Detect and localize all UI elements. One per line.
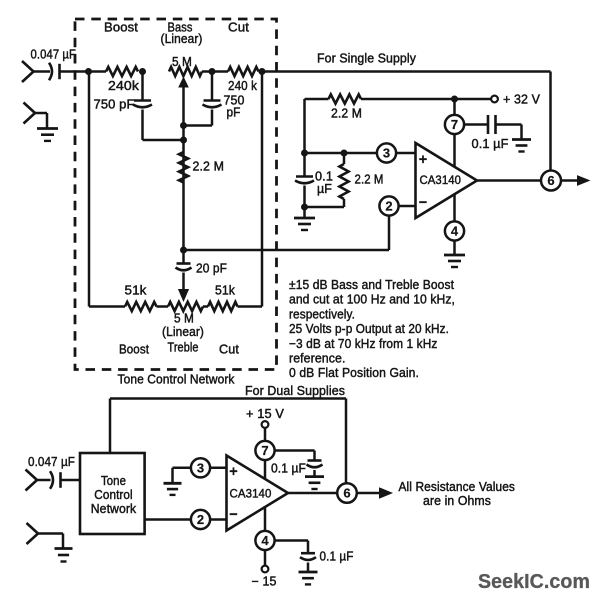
svg-text:−: − bbox=[229, 507, 238, 523]
svg-text:0.1 µF: 0.1 µF bbox=[472, 137, 509, 151]
svg-text:3: 3 bbox=[383, 146, 390, 161]
svg-text:CA3140: CA3140 bbox=[230, 487, 272, 501]
svg-text:CA3140: CA3140 bbox=[420, 173, 462, 187]
svg-text:4: 4 bbox=[451, 224, 459, 239]
svg-text:SeekIC.com: SeekIC.com bbox=[478, 570, 590, 593]
svg-text:7: 7 bbox=[261, 443, 268, 458]
svg-text:750 pF: 750 pF bbox=[94, 98, 135, 112]
svg-text:Cut: Cut bbox=[219, 343, 239, 357]
svg-text:Network: Network bbox=[91, 502, 137, 516]
svg-text:2.2 M: 2.2 M bbox=[193, 160, 225, 174]
svg-text:reference.: reference. bbox=[289, 351, 346, 366]
svg-text:51k: 51k bbox=[215, 284, 236, 298]
svg-text:4: 4 bbox=[261, 533, 269, 548]
svg-text:− 15: − 15 bbox=[252, 575, 277, 589]
svg-text:240k: 240k bbox=[108, 79, 140, 93]
svg-text:Boost: Boost bbox=[104, 21, 138, 35]
svg-text:0.047 µF: 0.047 µF bbox=[31, 48, 77, 62]
svg-text:Control: Control bbox=[94, 488, 133, 502]
svg-text:(Linear): (Linear) bbox=[161, 32, 203, 46]
svg-text:5 M: 5 M bbox=[174, 312, 194, 326]
svg-text:0.047 µF: 0.047 µF bbox=[28, 455, 75, 469]
svg-text:Cut: Cut bbox=[228, 21, 249, 35]
svg-text:2.2 M: 2.2 M bbox=[355, 173, 384, 187]
svg-text:6: 6 bbox=[547, 173, 554, 188]
svg-text:Boost: Boost bbox=[119, 343, 149, 357]
svg-text:6: 6 bbox=[343, 486, 350, 501]
svg-text:25 Volts p-p Output at 20 kHz.: 25 Volts p-p Output at 20 kHz. bbox=[289, 321, 449, 336]
svg-text:51k: 51k bbox=[125, 284, 148, 298]
svg-text:0.1 µF: 0.1 µF bbox=[271, 462, 306, 476]
svg-text:For Dual Supplies: For Dual Supplies bbox=[245, 384, 345, 398]
svg-text:+: + bbox=[229, 464, 238, 480]
svg-text:20 pF: 20 pF bbox=[196, 262, 227, 276]
svg-text:3: 3 bbox=[197, 460, 204, 475]
svg-text:5 M: 5 M bbox=[172, 55, 192, 69]
svg-text:For Single Supply: For Single Supply bbox=[317, 52, 417, 66]
svg-text:(Linear): (Linear) bbox=[162, 325, 204, 339]
svg-text:pF: pF bbox=[227, 106, 241, 120]
svg-text:Tone Control Network: Tone Control Network bbox=[118, 373, 236, 387]
svg-text:0 dB Flat Position Gain.: 0 dB Flat Position Gain. bbox=[289, 365, 419, 380]
svg-text:2: 2 bbox=[385, 199, 392, 214]
svg-text:respectively.: respectively. bbox=[289, 306, 355, 321]
svg-text:2: 2 bbox=[197, 512, 204, 527]
svg-text:and cut at 100 Hz and 10 kHz,: and cut at 100 Hz and 10 kHz, bbox=[289, 292, 455, 307]
svg-text:Tone: Tone bbox=[101, 474, 126, 488]
svg-text:240 k: 240 k bbox=[228, 79, 258, 93]
svg-text:+ 32 V: + 32 V bbox=[503, 93, 541, 107]
svg-text:7: 7 bbox=[451, 117, 458, 132]
svg-text:0.1 µF: 0.1 µF bbox=[320, 550, 354, 564]
svg-text:+ 15 V: + 15 V bbox=[246, 407, 285, 421]
svg-text:µF: µF bbox=[317, 182, 332, 196]
svg-text:Treble: Treble bbox=[168, 341, 199, 355]
svg-text:+: + bbox=[419, 152, 428, 168]
svg-text:±15 dB Bass and Treble Boost: ±15 dB Bass and Treble Boost bbox=[289, 277, 454, 292]
svg-text:are in Ohms: are in Ohms bbox=[423, 494, 491, 508]
svg-text:All Resistance Values: All Resistance Values bbox=[399, 480, 516, 494]
svg-text:−: − bbox=[419, 195, 428, 211]
svg-text:2.2 M: 2.2 M bbox=[331, 107, 362, 121]
svg-text:−3 dB at 70 kHz from 1 kHz: −3 dB at 70 kHz from 1 kHz bbox=[289, 336, 438, 351]
